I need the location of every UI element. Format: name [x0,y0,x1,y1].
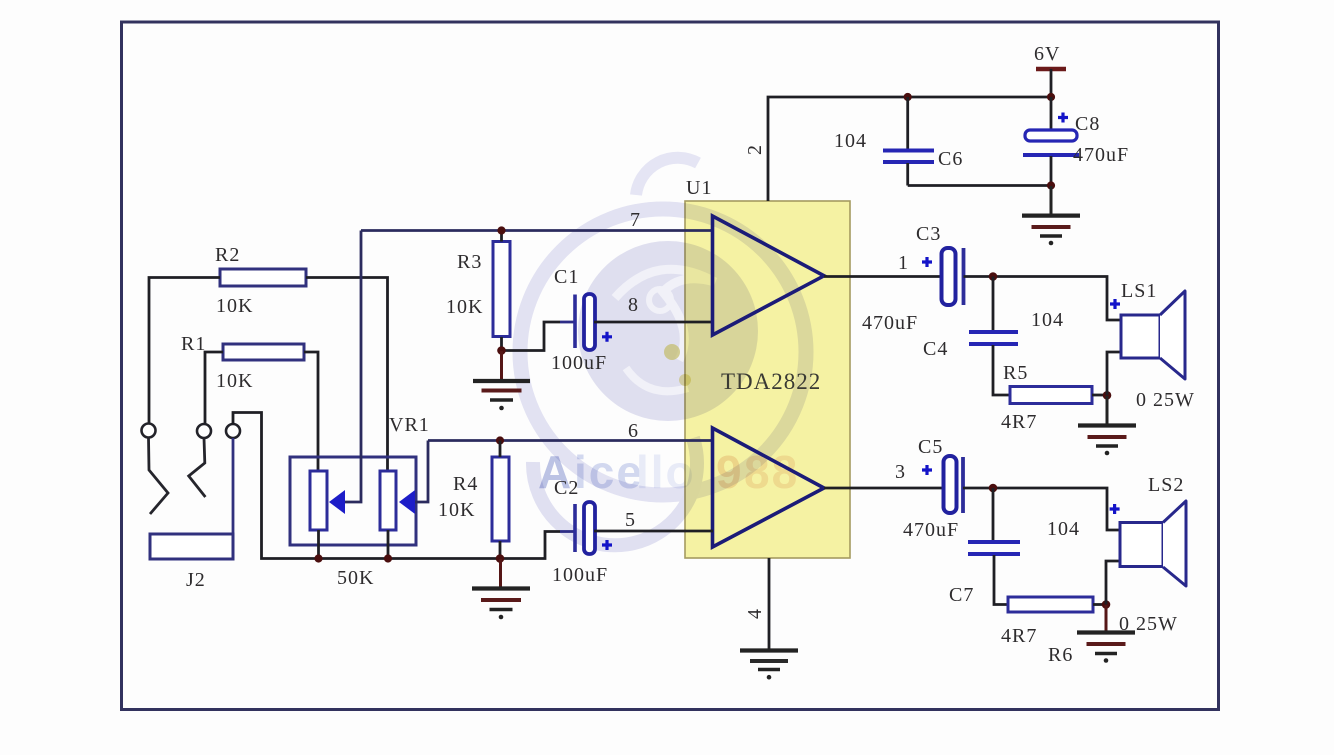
wire R2 right lead down to VR1 pot2 top [306,278,388,472]
svg-text:10K: 10K [216,295,253,317]
pin label 5 [625,509,636,531]
svg-text:C1: C1 [554,266,579,288]
wire op-amp B output to C5 [824,487,944,490]
wire R1 right lead down to VR1 pot1 top [304,352,318,471]
node C8 bottom [1047,181,1055,189]
svg-text:LS2: LS2 [1148,474,1184,496]
resistor R3 [446,242,510,337]
wire LS1 bottom input [1107,352,1121,395]
watermark emblem [520,158,806,545]
svg-text:9: 9 [716,446,744,498]
wire R2 left lead to jack tip [149,278,220,424]
wire R3 bottom to C1 left [502,322,561,351]
wire R3 top lead [500,231,503,242]
wire C3 to LS1 top [964,277,1122,321]
wire C1 right to pin 8 [594,321,713,324]
wire LS2 bottom input [1106,561,1120,605]
pin label 8 [628,294,639,316]
capacitor C1 [551,266,607,374]
svg-text:0 25W: 0 25W [1136,389,1195,411]
resistor R2 [215,244,306,317]
capacitor C7 [949,488,1080,606]
wire R4 bottom lead [499,541,502,559]
node pin7 / R3 top [497,226,505,234]
capacitor C5 electrolytic [903,436,963,541]
svg-text:6: 6 [628,420,639,442]
pin label 4 (rotated) [744,608,766,619]
jack J2 terminal contact 3 [226,424,240,438]
svg-text:470uF: 470uF [1073,144,1129,166]
node pin6 / R4 top [496,436,504,444]
wire ground bus to C2 [319,532,561,559]
potentiometer VR1 wiper arrow B [399,490,415,514]
svg-text:R4: R4 [453,473,478,495]
ground below C8 [1022,186,1080,245]
polarity plus C5 [922,465,932,475]
svg-text:C3: C3 [916,223,941,245]
svg-text:R2: R2 [215,244,240,266]
svg-text:50K: 50K [337,567,374,589]
resistor R5 [1001,362,1092,433]
wire jack sleeve to J2 body [232,438,235,534]
wire R6 right lead [1093,603,1106,606]
pin label 6 [628,420,639,442]
wire C5 to LS2 top [963,488,1120,530]
svg-text:6V: 6V [1034,43,1060,65]
svg-text:7: 7 [630,209,641,231]
pin label 7 [630,209,641,231]
watermark text [538,446,799,498]
svg-text:C4: C4 [923,338,948,360]
svg-text:C2: C2 [554,477,579,499]
svg-text:8: 8 [628,294,639,316]
node C5 output / C7 top [989,484,998,493]
svg-text:3: 3 [895,461,906,483]
svg-text:10K: 10K [438,499,475,521]
node R4 bottom [496,554,505,563]
jack J2 switch lever 1 [149,438,169,515]
speaker LS2 [1119,474,1186,635]
svg-text:J2: J2 [186,569,206,591]
svg-text:100uF: 100uF [551,352,607,374]
potentiometer VR1 wiper arrow A [329,490,345,514]
power 6V [1034,43,1066,97]
op-amp B of U1 [713,428,825,547]
potentiometer VR1 box [290,414,430,589]
wire C6 bottom to C8 bottom [908,184,1051,187]
node VR1 track B bottom [384,554,392,562]
svg-text:R1: R1 [181,333,206,355]
resistor R1 [181,333,304,392]
svg-text:U1: U1 [686,177,712,199]
op-amp A of U1 [713,216,825,335]
polarity plus LS2 [1110,504,1120,514]
svg-text:104: 104 [1031,309,1064,331]
pin label 2 (rotated) [744,144,766,155]
pin label 3 [895,461,906,483]
svg-text:C8: C8 [1075,113,1100,135]
jack J2 terminal contact 1 [142,424,156,438]
wire C2 right to pin 5 [594,530,713,533]
wire op-amp A output to C3 [824,275,943,278]
wire pin 4 to ground [768,558,771,650]
capacitor C2 [552,477,608,586]
connector J2 body [150,534,233,591]
IC U1 TDA2822 body [685,201,850,558]
node VR1 track A bottom [314,554,322,562]
svg-text:R3: R3 [457,251,482,273]
svg-text:1: 1 [898,252,909,274]
wire VR1 track B bottom to ground bus [387,530,390,559]
ground below R6 [1077,605,1135,663]
svg-text:470uF: 470uF [903,519,959,541]
node R6 / LS2 bottom [1102,600,1111,609]
capacitor C3 electrolytic [862,223,964,334]
polarity plus C2 [602,540,612,550]
resistor R6 [1001,597,1093,666]
potentiometer VR1 track A [310,471,327,530]
ground below R3 [473,351,530,410]
svg-text:4R7: 4R7 [1001,625,1037,647]
wire R1 left lead to jack ring [205,352,223,424]
svg-text:R5: R5 [1003,362,1028,384]
svg-text:C7: C7 [949,584,974,606]
wire jack sleeve to ground bus [233,413,319,559]
potentiometer VR1 track B [380,471,396,530]
outer border frame [122,22,1219,710]
capacitor C6 [834,97,963,186]
ground below R4 [472,559,530,619]
polarity plus C3 [922,257,932,267]
svg-text:TDA2822: TDA2822 [721,369,821,394]
svg-text:100uF: 100uF [552,564,608,586]
ground below pin 4 [740,651,798,680]
IC U1 labels [686,177,821,394]
node R3 bottom [497,346,506,355]
speaker LS1 [1121,280,1195,411]
node supply / C8 top [1047,93,1055,101]
wire VR1 track A bottom to ground bus [317,530,320,559]
svg-text:104: 104 [834,130,867,152]
svg-text:llo: llo [636,446,696,498]
svg-text:C5: C5 [918,436,943,458]
wire pin 2 to supply rail [768,97,1051,201]
svg-text:C6: C6 [938,148,963,170]
polarity plus LS1 [1110,299,1120,309]
svg-text:10K: 10K [216,370,253,392]
wire R5 right lead [1092,394,1107,397]
jack J2 terminal contact 2 [197,424,211,438]
svg-text:5: 5 [625,509,636,531]
polarity plus C1 [602,332,612,342]
wire VR1 wiper A to pin 7 net [345,231,361,503]
svg-text:0 25W: 0 25W [1119,613,1178,635]
svg-text:2: 2 [744,144,766,155]
svg-text:470uF: 470uF [862,312,918,334]
node R5 / LS1 bottom [1103,391,1112,400]
pin label 1 [898,252,909,274]
wire pin 7 net horizontal into op-amp [361,229,713,232]
capacitor C8 electrolytic [1023,97,1129,186]
ground below R5 [1078,396,1136,455]
svg-text:104: 104 [1047,518,1080,540]
capacitor C4 [923,277,1064,396]
jack J2 switch lever 2 [189,438,206,497]
wire pin 6 net horizontal into op-amp [428,439,713,442]
node C3 output / C4 top [989,272,998,281]
svg-text:4: 4 [744,608,766,619]
svg-text:R6: R6 [1048,644,1073,666]
svg-text:ice: ice [574,446,644,498]
svg-text:LS1: LS1 [1121,280,1157,302]
svg-text:10K: 10K [446,296,483,318]
polarity plus C8 [1058,113,1068,123]
node supply / C6 top [904,93,912,101]
wire R4 top lead [499,441,502,458]
svg-text:VR1: VR1 [389,414,430,436]
wire VR1 wiper B to pin 6 net [415,441,428,503]
svg-text:4R7: 4R7 [1001,411,1037,433]
resistor R4 [438,457,509,541]
